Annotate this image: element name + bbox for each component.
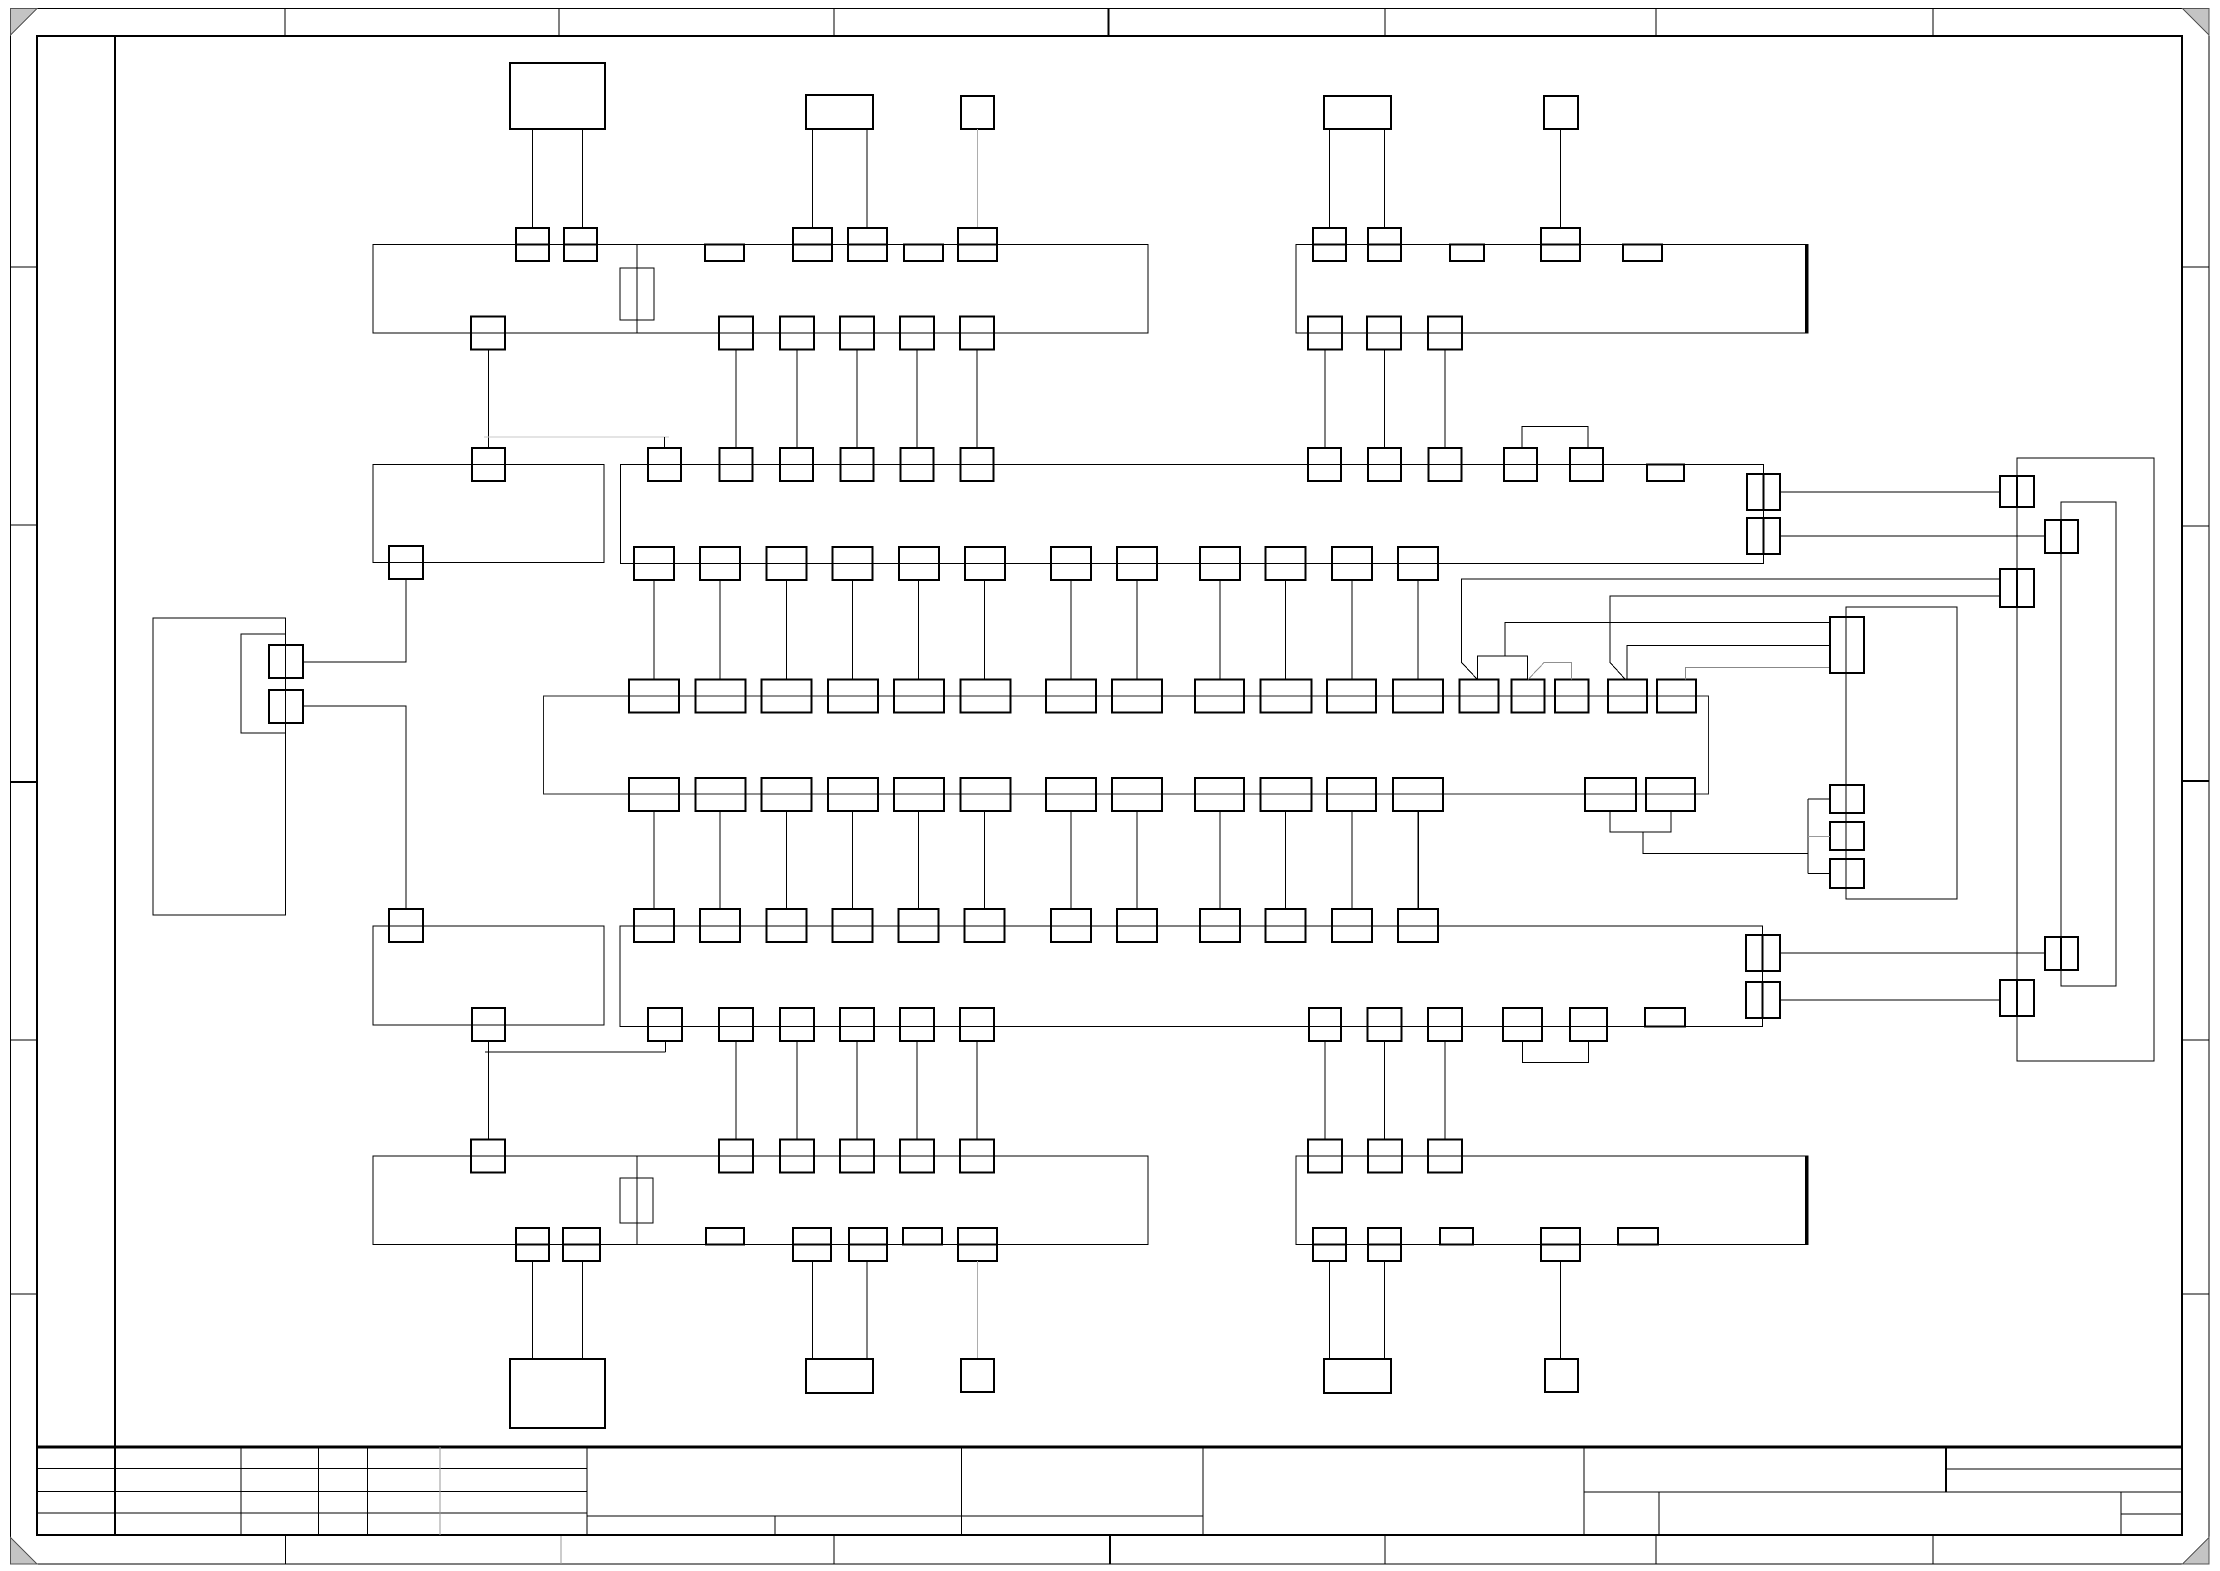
title block row line right	[1584, 1491, 2182, 1493]
pin X3 right 1 mid	[1763, 474, 1765, 510]
title block row line right	[1946, 1468, 2182, 1470]
pin XM bottom	[960, 778, 1010, 811]
pin X4 bottom	[719, 1008, 753, 1041]
pin D3 s3	[1830, 859, 1864, 888]
wire X4 to X5	[856, 1041, 858, 1140]
wire X1 bottom down	[735, 350, 737, 449]
pin XM top	[1195, 680, 1244, 713]
title block short column	[774, 1516, 776, 1535]
centre tick bottom	[1109, 1535, 1111, 1564]
pin X6 b2	[1368, 1228, 1401, 1261]
unit D3 box	[1846, 607, 1957, 899]
unit C5 box	[1545, 1359, 1578, 1392]
wire A1 pin1	[532, 129, 534, 228]
wire A4 pin1	[1329, 129, 1331, 228]
pin X3 bottom	[634, 547, 674, 580]
pin XM bottom	[1195, 778, 1244, 811]
unit C1 box	[510, 1359, 605, 1428]
pin X5 b1 mid	[516, 1244, 549, 1246]
zone tick top	[1932, 9, 1934, 37]
pin X1 t7	[958, 228, 997, 261]
wire X4 to X5	[735, 1041, 737, 1140]
connector XM body	[544, 696, 1709, 794]
unit D2 tall box	[2061, 502, 2116, 986]
pin X5 b7 mid	[958, 1244, 997, 1246]
half pin X1 t3	[705, 245, 744, 262]
half pin X6 b3	[1440, 1228, 1473, 1245]
wire C2 pin1	[812, 1261, 814, 1359]
wire X3 to XM	[719, 580, 721, 680]
pin X5 b1	[516, 1228, 549, 1261]
centre tick left	[11, 781, 38, 783]
net bus y579	[1462, 579, 2001, 680]
pin X2 t2	[1368, 228, 1401, 261]
pin X1 bottom	[900, 317, 934, 350]
X5 inner fuse line	[636, 1156, 638, 1245]
wire XM to X4	[719, 811, 721, 909]
pin X3 right 1	[1747, 474, 1780, 510]
title block column line	[318, 1447, 320, 1535]
pin X1 bottom	[780, 317, 814, 350]
pin X4 bottom	[1570, 1008, 1607, 1041]
pin XM top	[695, 680, 745, 713]
pin X5 b5 mid	[849, 1244, 887, 1246]
pin X2 bottom	[1308, 317, 1342, 350]
pin X4 top	[1266, 909, 1306, 942]
pin X1 bottom	[840, 317, 874, 350]
zone tick right	[2182, 266, 2209, 268]
pin X3 top	[1504, 448, 1537, 481]
left column divider	[114, 36, 116, 1535]
wire X2 bottom down	[1324, 350, 1326, 449]
pin X4 top	[1332, 909, 1372, 942]
wire X4 to X6	[1384, 1041, 1386, 1140]
pin D3 s1	[1830, 785, 1864, 813]
wire X3 to XM	[653, 580, 655, 680]
stub to X3 pin1	[664, 437, 666, 448]
wire X4 to X5	[916, 1041, 918, 1140]
wire C4 pin1	[1329, 1261, 1331, 1359]
pin X5 top	[960, 1140, 994, 1173]
wire X4 to X5	[976, 1041, 978, 1140]
zone tick bottom	[1655, 1535, 1657, 1564]
connector X5 body	[373, 1156, 1148, 1245]
pin X2 t4 mid	[1541, 244, 1580, 246]
wire X1 bottom down	[976, 350, 978, 449]
X5 inner fuse box	[620, 1178, 653, 1223]
pin D1 a	[2000, 476, 2034, 507]
pin X4 top	[833, 909, 873, 942]
pin D3 s2	[1830, 822, 1864, 850]
pin X5 b5	[849, 1228, 887, 1261]
title block top rule	[37, 1446, 2182, 1449]
zone tick top	[1655, 9, 1657, 37]
wire A5 pin	[1560, 129, 1562, 228]
wire G1b to B2	[303, 706, 406, 909]
pin X3 top	[1368, 448, 1401, 481]
title block column line	[367, 1447, 369, 1535]
wire X3 to XM	[1136, 580, 1138, 680]
net bus y596	[1610, 596, 2000, 680]
unit B2 box	[373, 926, 604, 1025]
pin X6 b4 mid	[1541, 1244, 1580, 1246]
connector X4 body	[620, 926, 1763, 1027]
X1 inner fuse box	[620, 268, 654, 320]
pin X4 right 2	[1746, 982, 1780, 1018]
pin XM top	[1460, 680, 1499, 713]
wire X3 to XM	[984, 580, 986, 680]
pin X3 right 2 mid	[1763, 518, 1765, 554]
pin X4 top	[1398, 909, 1438, 942]
pin XM bottom	[1046, 778, 1096, 811]
wire C1 pin1	[532, 1261, 534, 1359]
title block row line mid	[587, 1515, 1203, 1517]
pin X4 right 1 mid	[1762, 935, 1764, 971]
pin X3 bottom	[1117, 547, 1157, 580]
title block short column	[1945, 1447, 1947, 1492]
pin X5 top	[719, 1140, 753, 1173]
wire B2 to X5	[488, 1041, 490, 1140]
wire XM to X4	[1070, 811, 1072, 909]
pin XM bottom	[629, 778, 679, 811]
pin XM top	[1393, 680, 1443, 713]
pin XM bottom	[1646, 778, 1695, 811]
pin X3 bottom	[1200, 547, 1240, 580]
zone tick left	[11, 266, 38, 268]
pin D2 b mid	[2060, 937, 2062, 970]
pin XM bottom	[762, 778, 812, 811]
zone tick bottom	[1384, 1535, 1386, 1564]
zone tick bottom grey	[560, 1535, 562, 1564]
wire C4 pin2	[1384, 1261, 1386, 1359]
pin X4 top	[634, 909, 674, 942]
pin X6 b4	[1541, 1228, 1580, 1261]
pin X3 top	[780, 448, 813, 481]
half pin X1 t6	[904, 245, 943, 262]
pin XM top	[1327, 680, 1376, 713]
wire X3r1 to D1a	[1780, 491, 2000, 493]
wire X1.b1 down	[488, 350, 490, 449]
connector X3 body	[621, 464, 1764, 563]
net cap X3	[1477, 656, 1527, 679]
pin D2 b	[2045, 937, 2078, 970]
pin X5 top	[780, 1140, 814, 1173]
half pin X2 t3	[1450, 245, 1484, 262]
pin X4 top	[700, 909, 740, 942]
pin X3 bottom	[766, 547, 806, 580]
pin X4 right 1	[1746, 935, 1780, 971]
net bus y622	[1505, 622, 1830, 656]
bracket net D3	[1807, 799, 1809, 874]
unit B1 box	[373, 464, 604, 562]
wire X3 to XM	[1417, 580, 1419, 680]
pin X4 bottom	[900, 1008, 934, 1041]
pin X3 bottom	[833, 547, 873, 580]
X2 right edge thick	[1805, 245, 1808, 334]
pin X3 bottom	[1398, 547, 1438, 580]
title block short column	[2120, 1492, 2122, 1535]
wire A1 pin2	[582, 129, 584, 228]
pin D1 b mid	[2016, 569, 2018, 607]
pin XM bottom	[828, 778, 878, 811]
pin X4 bottom	[648, 1008, 682, 1041]
pin X2 t1 mid	[1313, 244, 1346, 246]
pin X3 top	[901, 448, 934, 481]
pin X3 top	[1429, 448, 1462, 481]
title block column line	[240, 1447, 242, 1535]
grey net bus upper	[484, 436, 669, 438]
unit C4 box	[1324, 1359, 1391, 1393]
pin B1 top	[472, 448, 505, 481]
pin XM top	[1046, 680, 1096, 713]
pin X5 b7	[958, 1228, 997, 1261]
pin XM top	[1657, 680, 1696, 713]
zone tick top	[284, 9, 286, 37]
stub X4 pin1	[665, 1041, 667, 1052]
wire A4 pin2	[1384, 129, 1386, 228]
bracket stub 3	[1808, 873, 1830, 875]
grey jog net	[1528, 662, 1571, 679]
pin X4 top	[1051, 909, 1091, 942]
pin X4 bottom	[1503, 1008, 1542, 1041]
half pin X5 b6	[903, 1228, 942, 1245]
X6 right edge thick	[1805, 1156, 1808, 1245]
pin X5 b2 mid	[563, 1244, 600, 1246]
pin X3 bottom	[965, 547, 1005, 580]
zone tick bottom	[833, 1535, 835, 1564]
pin X3 right 2	[1747, 518, 1780, 554]
pin X6 top	[1368, 1140, 1402, 1173]
wire A3 grey	[977, 129, 979, 228]
net XM to K1 bracket	[1643, 832, 1808, 854]
pin D1 c	[2000, 980, 2034, 1016]
pin X1 t1	[516, 228, 549, 261]
pin X5 b4 mid	[793, 1244, 831, 1246]
pin X1 t1 mid	[516, 244, 549, 246]
zone tick right	[2182, 1293, 2209, 1295]
pin X6 b2 mid	[1368, 1244, 1401, 1246]
pin D1 c mid	[2016, 980, 2018, 1016]
pin X1 t2	[564, 228, 597, 261]
wire XM to X4	[1136, 811, 1138, 909]
unit A1 box	[510, 63, 605, 129]
wire G1a to B1	[303, 579, 406, 663]
pin X1 bottom	[471, 317, 505, 350]
pin X6 b1 mid	[1313, 1244, 1346, 1246]
pin XM bottom	[1112, 778, 1162, 811]
pin XM top	[629, 680, 679, 713]
pin X3 bottom	[700, 547, 740, 580]
half pin X4 bottom	[1645, 1008, 1685, 1027]
pin X2 t4	[1541, 228, 1580, 261]
unit D1 tall box	[2017, 458, 2154, 1061]
half pin X3 top	[1647, 464, 1684, 481]
zone tick bottom	[1932, 1535, 1934, 1564]
pin D1 a mid	[2016, 476, 2018, 507]
wire X2 bottom down	[1444, 350, 1446, 449]
pin X4 top	[767, 909, 807, 942]
title block row line right	[2121, 1513, 2182, 1515]
wire XM to X4	[653, 811, 655, 909]
pin X4 bottom	[780, 1008, 814, 1041]
pin X6 top	[1308, 1140, 1342, 1173]
wire X3r2 to D2a	[1780, 535, 2045, 537]
pin XM top	[894, 680, 944, 713]
pin G1 a	[269, 645, 303, 678]
pin XM top	[1608, 680, 1647, 713]
pin X4 top	[965, 909, 1005, 942]
wire C2 pin2	[866, 1261, 868, 1359]
zone tick top	[1384, 9, 1386, 37]
net XM br join	[1610, 811, 1671, 832]
pin XM top	[1261, 680, 1312, 713]
jumper loop X4 bottom	[1523, 1041, 1589, 1062]
wire C5 pin	[1560, 1261, 1562, 1359]
pin X2 bottom	[1428, 317, 1462, 350]
title block column line	[1202, 1447, 1204, 1535]
pin X2 bottom	[1367, 317, 1401, 350]
wire X3 to XM	[786, 580, 788, 680]
pin X6 top	[1428, 1140, 1462, 1173]
wire X2 bottom down	[1384, 350, 1386, 449]
net bus lower	[485, 1051, 666, 1053]
pin X5 b4	[793, 1228, 831, 1261]
title block column line grey	[439, 1447, 441, 1535]
pin X3 top	[720, 448, 753, 481]
half pin X6 b5	[1618, 1228, 1658, 1245]
pin X2 t1	[1313, 228, 1346, 261]
wire XM to X4	[1219, 811, 1221, 909]
zone tick top	[833, 9, 835, 37]
centre tick right	[2182, 780, 2209, 782]
title block row line	[37, 1490, 587, 1492]
pin XM bottom	[695, 778, 745, 811]
pin X1 t2 mid	[564, 244, 597, 246]
wire A2 pin1	[812, 129, 814, 228]
zone tick left	[11, 1293, 38, 1295]
pin X5 top	[840, 1140, 874, 1173]
pin XM top	[1512, 680, 1545, 713]
title block column line	[586, 1447, 588, 1535]
wire X4 to X5	[796, 1041, 798, 1140]
corner fold triangle bottom-left	[11, 1538, 38, 1565]
pin D3 tall	[1830, 617, 1864, 673]
pin G1 b	[269, 690, 303, 723]
pin XM bottom	[1261, 778, 1312, 811]
wire X1 bottom down	[916, 350, 918, 449]
pin X4 bottom	[1309, 1008, 1341, 1041]
connector X1 body	[373, 245, 1148, 334]
pin XM bottom	[894, 778, 944, 811]
wire X4r1 to D2b	[1780, 952, 2045, 954]
pin X1 t4	[793, 228, 832, 261]
pin X1 t5	[848, 228, 887, 261]
pin D2 a	[2045, 520, 2078, 553]
wire C3 grey	[977, 1261, 979, 1359]
wire XM to X4	[1351, 811, 1353, 909]
net bus y668 grey	[1686, 668, 1831, 680]
pin X1 bottom	[960, 317, 994, 350]
corner fold triangle bottom-right	[2183, 1538, 2210, 1565]
pin XM bottom	[1327, 778, 1376, 811]
pin D2 a mid	[2060, 520, 2062, 553]
wire X4 to X6	[1444, 1041, 1446, 1140]
wire X3 to XM	[852, 580, 854, 680]
wire XM to X4	[852, 811, 854, 909]
zone tick left	[11, 1039, 38, 1041]
pin X4 bottom	[1428, 1008, 1462, 1041]
pin X1 t7 mid	[958, 244, 997, 246]
title block column line	[1583, 1447, 1585, 1535]
zone tick right	[2182, 1039, 2209, 1041]
pin X4 top	[1200, 909, 1240, 942]
power unit G1 box	[153, 618, 286, 915]
bracket stub 2 grey	[1808, 836, 1830, 838]
wire X3 to XM	[1070, 580, 1072, 680]
X1 inner fuse line	[636, 245, 638, 334]
pin X2 t2 mid	[1368, 244, 1401, 246]
zone tick left	[11, 524, 38, 526]
unit A4 box	[1324, 96, 1391, 129]
wire X3 to XM	[1351, 580, 1353, 680]
pin X6 b1	[1313, 1228, 1346, 1261]
title block row line	[37, 1512, 587, 1514]
wire XM to X4	[1417, 811, 1419, 909]
pin XM top	[960, 680, 1010, 713]
wire X3 to XM	[1219, 580, 1221, 680]
wire X3 to XM	[918, 580, 920, 680]
unit C2 box	[806, 1359, 873, 1393]
jumper loop X3 top	[1522, 426, 1588, 448]
pin B2 bottom	[472, 1008, 505, 1041]
pin X5 top	[471, 1140, 505, 1173]
title block short column	[1658, 1492, 1660, 1535]
unit A2 box	[806, 95, 873, 129]
pin X1 t5 mid	[848, 244, 887, 246]
wire C1 pin2	[582, 1261, 584, 1359]
pin XM top	[1112, 680, 1162, 713]
pin X3 bottom	[1266, 547, 1306, 580]
wire XM b12 down	[1418, 811, 1420, 909]
pin X4 bottom	[1368, 1008, 1402, 1041]
bracket stub 1	[1808, 798, 1830, 800]
pin X4 top	[899, 909, 939, 942]
half pin X5 b3	[706, 1228, 744, 1245]
wire XM to X4	[918, 811, 920, 909]
unit A5 box	[1544, 96, 1578, 129]
wire X4r2 to D1c	[1780, 999, 2000, 1001]
unit C3 box	[961, 1359, 994, 1392]
wire XM to X4	[984, 811, 986, 909]
pin X3 top	[1308, 448, 1341, 481]
pin B1 bottom	[389, 546, 423, 579]
wire XM to X4	[1285, 811, 1287, 909]
pin XM bottom	[1585, 778, 1636, 811]
pin X3 top	[841, 448, 874, 481]
unit A3 box	[961, 96, 994, 129]
pin D1 b	[2000, 569, 2034, 607]
net bus y645	[1627, 645, 1830, 679]
zone tick bottom	[285, 1535, 287, 1564]
corner fold triangle top-right	[2183, 9, 2210, 36]
pin X3 bottom	[1051, 547, 1091, 580]
pin X1 bottom	[719, 317, 753, 350]
wire X1 bottom down	[796, 350, 798, 449]
G1 inner box	[241, 634, 286, 733]
zone tick top	[558, 9, 560, 37]
wire XM to X4	[786, 811, 788, 909]
pin XM top	[828, 680, 878, 713]
